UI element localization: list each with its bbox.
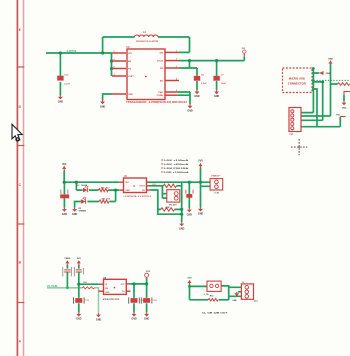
svg-text:R16: R16 (210, 296, 215, 298)
svg-text:R18: R18 (106, 199, 111, 201)
svg-text:MICRO USB: MICRO USB (289, 76, 305, 80)
svg-text:2.2uF: 2.2uF (201, 83, 207, 85)
svg-text:GND: GND (128, 94, 133, 96)
svg-text:C6: C6 (201, 74, 205, 76)
svg-text:B: B (19, 261, 22, 265)
svg-text:VIN: VIN (128, 53, 132, 55)
svg-text:LDK +200mA: LDK +200mA (164, 163, 189, 166)
svg-text:VSET: VSET (128, 76, 134, 78)
svg-text:GND: GND (194, 95, 200, 98)
svg-text:D2: D2 (77, 185, 81, 187)
svg-text:GND: GND (131, 318, 137, 321)
svg-text:A: A (19, 340, 22, 344)
svg-text:C15: C15 (153, 300, 156, 302)
svg-text:5_1A: 5_1A (204, 293, 209, 296)
svg-text:PGND: PGND (157, 95, 164, 97)
svg-text:5V0: 5V0 (77, 258, 82, 260)
svg-text:C7: C7 (221, 74, 225, 76)
svg-text:R17: R17 (106, 187, 111, 189)
svg-text:GND: GND (198, 213, 204, 216)
svg-text:P$1: P$1 (336, 115, 340, 117)
svg-text:C13: C13 (85, 300, 88, 302)
svg-text:GND: GND (76, 318, 82, 321)
svg-text:GND: GND (214, 95, 220, 98)
svg-text:2: 2 (176, 59, 177, 61)
svg-text:FDSD0315-H-4R7M: FDSD0315-H-4R7M (136, 40, 158, 43)
svg-text:LDK +1000mA: LDK +1000mA (164, 171, 189, 174)
svg-text:5V0: 5V0 (146, 271, 151, 273)
svg-text:GND: GND (105, 292, 110, 294)
svg-text:AP2112K-3.3TRG1 SOT25: AP2112K-3.3TRG1 SOT25 (103, 298, 120, 301)
svg-text:10uF: 10uF (221, 83, 227, 85)
svg-text:C10: C10 (64, 74, 69, 76)
svg-text:P$5: P$5 (290, 134, 294, 136)
svg-text:D3: D3 (79, 208, 83, 210)
svg-text:LDK F501RA: LDK F501RA (164, 167, 189, 170)
svg-text:VBUS: VBUS (64, 258, 71, 260)
svg-text:GND: GND (179, 227, 185, 230)
svg-text:2: 2 (114, 74, 115, 76)
svg-text:D: D (19, 105, 22, 109)
svg-text:VOUT: VOUT (139, 186, 145, 188)
svg-text:1: 1 (176, 50, 177, 52)
svg-text:TPS61202DRC_3-PWR(SON-10) DRC0: TPS61202DRC_3-PWR(SON-10) DRC0010J (126, 102, 188, 104)
svg-text:C: C (19, 183, 22, 187)
svg-text:5mx: 5mx (254, 301, 259, 303)
svg-text:E: E (19, 28, 22, 32)
svg-text:GND: GND (187, 109, 193, 112)
svg-text:LPJRT3KUL-3.3 SOT23-5: LPJRT3KUL-3.3 SOT23-5 (124, 196, 152, 198)
svg-text:5V0: 5V0 (198, 160, 203, 163)
svg-text:470: 470 (102, 198, 106, 201)
svg-text:L2: L2 (143, 31, 146, 34)
svg-text:GND: GND (232, 300, 237, 302)
svg-text:3: 3 (114, 67, 115, 69)
svg-text:GND: GND (125, 190, 130, 192)
svg-text:FB: FB (160, 68, 163, 70)
svg-text:GND: GND (326, 73, 331, 75)
svg-text:5_IN: 5_IN (215, 192, 220, 194)
svg-text:GND: GND (62, 213, 68, 216)
svg-text:GND: GND (72, 213, 78, 216)
svg-text:GND: GND (144, 318, 150, 321)
svg-text:PAD: PAD (159, 91, 164, 94)
svg-text:USB5V*: USB5V* (211, 175, 221, 177)
svg-text:3: 3 (176, 66, 177, 68)
svg-text:GND: GND (342, 108, 347, 110)
svg-text:GREEN: GREEN (79, 211, 87, 213)
svg-text:5V0: 5V0 (188, 278, 193, 280)
svg-text:EN: EN (128, 61, 131, 63)
svg-text:A1K: A1K (165, 206, 170, 209)
svg-text:VOUT: VOUT (157, 61, 164, 63)
svg-text:470: 470 (101, 186, 105, 189)
svg-text:GND: GND (328, 58, 333, 60)
svg-text:3V3: 3V3 (241, 48, 246, 50)
svg-text:VR_3V3: VR_3V3 (169, 204, 178, 206)
svg-text:6: 6 (176, 90, 177, 92)
svg-text:LDK +100mA: LDK +100mA (164, 159, 189, 162)
svg-text:VIN: VIN (125, 182, 129, 184)
svg-text:2.2uF: 2.2uF (64, 83, 70, 85)
svg-text:GND: GND (100, 105, 106, 108)
svg-text:LIPO: LIPO (67, 50, 77, 53)
svg-text:GND: GND (187, 213, 193, 216)
svg-text:3V3: 3V3 (62, 163, 67, 166)
svg-text:GND: GND (96, 318, 102, 321)
svg-text:CONNECTOR: CONNECTOR (288, 81, 306, 85)
svg-text:AD: AD (160, 79, 164, 82)
svg-text:GND: GND (58, 100, 64, 103)
svg-text:BLUE: BLUE (82, 185, 88, 187)
svg-text:CL GB 12B OUT: CL GB 12B OUT (202, 313, 228, 315)
svg-text:5: 5 (114, 51, 115, 53)
